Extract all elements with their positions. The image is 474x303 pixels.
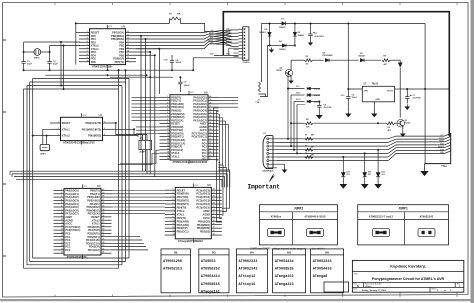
diode D3 1N4001 <box>293 24 304 46</box>
resistor R8 10K <box>290 119 313 128</box>
svg-text:12: 12 <box>61 225 63 227</box>
svg-text:PC3(ADC3): PC3(ADC3) <box>196 199 210 203</box>
svg-text:5V1: 5V1 <box>368 174 371 176</box>
svg-text:8: 8 <box>87 54 88 56</box>
transistor Q3 BC547 <box>277 68 293 77</box>
svg-text:27pF: 27pF <box>27 64 33 66</box>
svg-text:36: 36 <box>209 109 211 111</box>
svg-text:4K7: 4K7 <box>384 63 387 66</box>
svg-text:3: 3 <box>61 196 62 198</box>
svg-text:19: 19 <box>167 155 169 157</box>
svg-text:9: 9 <box>87 57 88 59</box>
svg-text:4K7: 4K7 <box>311 134 314 137</box>
svg-text:PB0(MOSI): PB0(MOSI) <box>88 134 101 138</box>
svg-text:GND: GND <box>108 67 113 69</box>
wire U5 right connections <box>214 97 239 170</box>
svg-text:RESET: RESET <box>438 146 445 148</box>
svg-text:78L05: 78L05 <box>372 84 379 86</box>
svg-text:3: 3 <box>87 38 88 40</box>
resistor R3 1K <box>291 56 323 70</box>
svg-text:33: 33 <box>102 212 104 214</box>
svg-text:R8: R8 <box>306 119 308 121</box>
capacitor C5 100nF <box>164 55 183 70</box>
svg-text:BC547: BC547 <box>405 122 411 125</box>
svg-text:1: 1 <box>87 31 88 33</box>
wire U5 left connections <box>118 97 160 164</box>
svg-text:1: 1 <box>167 96 168 98</box>
svg-text:VCC: VCC <box>83 186 88 188</box>
diode D5 1N4148 <box>358 53 381 62</box>
svg-text:35: 35 <box>102 206 104 208</box>
svg-text:1N4148: 1N4148 <box>358 55 365 58</box>
svg-text:4K7: 4K7 <box>311 146 314 149</box>
svg-text:U1: U1 <box>99 113 103 117</box>
wire crystal to U2 <box>23 42 80 70</box>
svg-text:23: 23 <box>102 245 104 247</box>
wire U2 reset top loop <box>75 19 209 65</box>
svg-text:U1: U1 <box>174 251 178 255</box>
svg-text:8: 8 <box>167 119 168 121</box>
ground DB9 <box>277 164 287 173</box>
svg-text:GND: GND <box>82 143 87 145</box>
svg-text:6: 6 <box>87 47 88 49</box>
svg-text:AGND: AGND <box>203 212 211 216</box>
svg-text:PD7(OC2): PD7(OC2) <box>88 248 100 252</box>
jumper icon JUMP1 right <box>418 228 435 236</box>
svg-text:11: 11 <box>61 222 63 224</box>
diode D10 5V1 <box>341 156 350 177</box>
jumper JP2 <box>278 147 290 156</box>
capacitor C2 <box>47 61 58 65</box>
svg-text:MOSI: MOSI <box>439 138 444 140</box>
svg-text:5: 5 <box>87 44 88 46</box>
svg-text:PC1(ADC1): PC1(ADC1) <box>196 192 210 196</box>
svg-text:29: 29 <box>209 132 211 134</box>
svg-text:R?: R? <box>305 135 307 137</box>
svg-text:AT90S8515: AT90S8515 <box>201 283 220 287</box>
ground C8 <box>316 112 323 119</box>
svg-text:1N4148: 1N4148 <box>314 88 321 91</box>
svg-text:18: 18 <box>213 223 215 225</box>
wire C5 branch <box>192 69 194 71</box>
svg-text:7: 7 <box>61 209 62 211</box>
svg-text:1N4001: 1N4001 <box>259 31 266 34</box>
svg-text:PROGRAM: PROGRAM <box>323 54 333 57</box>
ground Q3 <box>289 76 294 84</box>
svg-text:25: 25 <box>213 199 215 201</box>
diode D8 1N4148 <box>307 100 320 104</box>
svg-text:Sheet: Sheet <box>432 288 437 291</box>
jumper icon JUMP2 right <box>307 228 324 236</box>
svg-text:AREF: AREF <box>203 209 210 213</box>
wire loops under U3 <box>24 258 129 268</box>
svg-text:XTAL1: XTAL1 <box>177 212 185 216</box>
svg-text:11: 11 <box>172 223 174 225</box>
ground Q2 <box>400 126 406 137</box>
svg-text:10: 10 <box>87 60 89 62</box>
svg-text:1N4001: 1N4001 <box>298 34 305 37</box>
svg-text:JUMP3: JUMP3 <box>139 152 147 154</box>
svg-text:8: 8 <box>172 213 173 215</box>
svg-text:27pF: 27pF <box>53 64 59 66</box>
svg-text:AT90S2313: AT90S2313 <box>163 268 182 272</box>
svg-text:3: 3 <box>172 196 173 198</box>
svg-text:5V1: 5V1 <box>347 174 350 176</box>
svg-text:5V1: 5V1 <box>382 174 385 176</box>
svg-text:Document Number: Document Number <box>365 282 382 285</box>
svg-text:PD4(T0): PD4(T0) <box>177 206 187 210</box>
svg-text:47uF/16V: 47uF/16V <box>324 106 333 109</box>
svg-text:25: 25 <box>209 145 211 147</box>
svg-text:6: 6 <box>167 112 168 114</box>
wire resonator to U1 <box>32 129 50 144</box>
transistor Q2 BC547 <box>397 119 410 127</box>
svg-text:15: 15 <box>127 47 129 49</box>
resistor R5 4K7 <box>382 56 400 66</box>
svg-text:16: 16 <box>167 145 169 147</box>
IC U2 AT90S1200/2313 <box>79 25 136 69</box>
svg-text:MISO: MISO <box>439 141 444 143</box>
svg-text:ATmega163: ATmega163 <box>275 275 294 279</box>
svg-text:20: 20 <box>61 252 63 254</box>
svg-text:PC0: PC0 <box>65 248 71 252</box>
svg-text:VOUT: VOUT <box>387 91 394 93</box>
svg-text:AT89S53: AT89S53 <box>201 260 216 264</box>
svg-text:PD0: PD0 <box>202 158 208 162</box>
svg-text:U4: U4 <box>250 251 254 255</box>
svg-text:GND: GND <box>194 241 199 243</box>
IC U6 ATmega8/AT90S4433 <box>165 183 222 243</box>
svg-text:100nF: 100nF <box>176 62 183 64</box>
svg-text:PC4(ADC4): PC4(ADC4) <box>196 202 210 206</box>
ground D10 <box>339 177 347 189</box>
title block <box>352 260 463 292</box>
svg-text:VCC: VCC <box>82 115 87 117</box>
wire U3 to U6 <box>112 191 165 250</box>
svg-text:36: 36 <box>102 202 104 204</box>
resistor R7 4K7 <box>313 122 397 132</box>
svg-text:12: 12 <box>127 57 129 59</box>
svg-text:GND: GND <box>376 99 381 101</box>
svg-text:RESET: RESET <box>226 42 233 44</box>
svg-text:13: 13 <box>167 135 169 137</box>
svg-text:U5: U5 <box>287 251 291 255</box>
resistor R11 4K7 <box>305 134 314 141</box>
svg-text:30: 30 <box>209 129 211 131</box>
svg-text:PC5(ADC5): PC5(ADC5) <box>196 206 210 210</box>
wire SPI twist bundle <box>136 12 239 57</box>
svg-text:19: 19 <box>213 220 215 222</box>
svg-text:37: 37 <box>209 106 211 108</box>
svg-text:1: 1 <box>61 189 62 191</box>
svg-text:3: 3 <box>167 102 168 104</box>
svg-text:40: 40 <box>209 95 211 98</box>
svg-text:10: 10 <box>172 220 174 222</box>
wire main 12V rail <box>269 23 427 164</box>
svg-text:5: 5 <box>167 109 168 111</box>
svg-text:ATmega323: ATmega323 <box>275 283 294 287</box>
svg-text:20: 20 <box>127 31 129 33</box>
svg-text:R?: R? <box>305 153 307 155</box>
connector P1 DB9 <box>263 133 278 173</box>
svg-text:27: 27 <box>102 232 104 234</box>
wire left loop bus <box>24 79 129 269</box>
svg-text:9: 9 <box>172 216 173 218</box>
svg-text:15: 15 <box>61 235 63 237</box>
svg-text:U6: U6 <box>325 251 329 255</box>
svg-text:2: 2 <box>87 34 88 36</box>
svg-text:10K: 10K <box>177 14 181 16</box>
svg-text:PB2(SS): PB2(SS) <box>200 230 210 234</box>
ground D12 <box>374 177 382 189</box>
wire osc taps to loop bus <box>60 41 65 90</box>
ground U7 <box>371 111 377 117</box>
table JUMP1 <box>358 205 449 245</box>
ground C6 <box>345 111 351 117</box>
wire R5 to Q2 <box>398 60 403 117</box>
svg-text:22: 22 <box>209 155 211 157</box>
svg-text:U2: U2 <box>122 25 126 29</box>
svg-text:13: 13 <box>61 229 63 231</box>
svg-text:MOSI: MOSI <box>226 32 231 34</box>
svg-text:23: 23 <box>213 206 215 208</box>
svg-text:6: 6 <box>172 206 173 208</box>
capacitor C6 100nF <box>341 88 358 111</box>
svg-text:XTAL1: XTAL1 <box>171 154 179 158</box>
svg-text:470uF/25V: 470uF/25V <box>315 35 325 38</box>
svg-text:38: 38 <box>102 196 104 198</box>
svg-text:1N4001: 1N4001 <box>279 26 286 29</box>
svg-text:28: 28 <box>209 135 211 137</box>
svg-text:27: 27 <box>209 138 211 140</box>
svg-text:1: 1 <box>172 189 173 191</box>
svg-text:17: 17 <box>127 41 129 43</box>
svg-text:PB1(MISO/INT0): PB1(MISO/INT0) <box>82 127 102 131</box>
svg-text:PD5(T1): PD5(T1) <box>177 216 187 220</box>
wire right bus fan <box>425 133 451 168</box>
svg-text:PD0(RXD): PD0(RXD) <box>177 192 189 196</box>
label Important <box>248 173 281 191</box>
svg-text:100nF: 100nF <box>352 97 358 99</box>
svg-text:7: 7 <box>167 115 168 117</box>
svg-text:Ponyprogrammer Circuit for ATM: Ponyprogrammer Circuit for ATMEL's AVR <box>372 277 445 281</box>
ground right bus <box>420 164 445 177</box>
table U1 device list <box>161 249 191 293</box>
svg-text:AT90S2333: AT90S2333 <box>313 260 332 264</box>
svg-text:2: 2 <box>167 99 168 101</box>
connector J1 power jack <box>256 78 266 104</box>
svg-text:AT90S2343: AT90S2343 <box>420 215 434 218</box>
svg-text:U3: U3 <box>97 184 101 188</box>
svg-text:16: 16 <box>213 230 215 232</box>
svg-text:JUMP2: JUMP2 <box>294 207 304 211</box>
diode D12 5V1 <box>376 149 385 177</box>
svg-text:AT90S2323: AT90S2323 <box>239 260 258 264</box>
IC U3 AT90S4434/8535 socket <box>54 184 112 259</box>
capacitor C9 100nF <box>178 76 190 92</box>
svg-text:RESET: RESET <box>177 188 186 192</box>
svg-text:32: 32 <box>102 215 104 217</box>
svg-text:PB1(OC1): PB1(OC1) <box>177 230 189 234</box>
svg-text:12: 12 <box>167 132 169 134</box>
svg-text:4K7: 4K7 <box>388 129 391 132</box>
svg-text:39: 39 <box>102 192 104 194</box>
table U3 device list <box>199 249 229 295</box>
svg-text:1: 1 <box>58 122 59 124</box>
diode D11 5V1 <box>363 152 372 176</box>
svg-text:7: 7 <box>172 209 173 211</box>
svg-text:PD1(TXD): PD1(TXD) <box>177 195 189 199</box>
svg-text:15: 15 <box>167 142 169 144</box>
svg-text:VIN: VIN <box>364 91 368 93</box>
svg-text:U3: U3 <box>212 251 216 255</box>
svg-text:29: 29 <box>102 225 104 227</box>
ground C7 <box>404 104 410 110</box>
jumper icon JUMP2 left <box>268 228 285 236</box>
svg-text:33: 33 <box>209 119 211 121</box>
svg-text:JUMP1: JUMP1 <box>398 207 408 211</box>
svg-text:5: 5 <box>61 202 62 204</box>
svg-text:BC547: BC547 <box>277 69 283 72</box>
svg-text:R?: R? <box>305 146 307 148</box>
svg-text:Friday, January 17, 2003: Friday, January 17, 2003 <box>362 289 387 292</box>
svg-text:9: 9 <box>61 215 62 217</box>
svg-text:2: 2 <box>61 192 62 194</box>
svg-text:GND: GND <box>190 162 195 164</box>
svg-text:11: 11 <box>167 129 169 131</box>
svg-text:Date:: Date: <box>354 288 359 291</box>
svg-text:13: 13 <box>172 230 174 232</box>
svg-text:35: 35 <box>209 112 211 114</box>
wire VCC rail right <box>407 88 449 90</box>
svg-text:ATmega8: ATmega8 <box>313 275 328 279</box>
svg-text:28: 28 <box>102 229 104 231</box>
caption under JUMP2 <box>250 247 325 250</box>
svg-text:17: 17 <box>213 227 215 229</box>
svg-text:AMP1: AMP1 <box>40 153 46 156</box>
IC U1 AT90S2343/2323/Tiny <box>50 113 113 145</box>
resonator AMP1 <box>40 144 50 155</box>
svg-text:VCC: VCC <box>194 185 199 187</box>
svg-text:AT90Sxx: AT90Sxx <box>271 215 282 218</box>
svg-text:AVCC: AVCC <box>203 216 210 220</box>
svg-text:ATtiny15: ATtiny15 <box>239 282 256 287</box>
svg-text:AT90S1200: AT90S1200 <box>163 260 182 264</box>
svg-text:ATtiny12: ATtiny12 <box>239 274 256 279</box>
svg-text:XTAL2: XTAL2 <box>62 134 70 138</box>
svg-text:ATmega8/AT90S4433: ATmega8/AT90S4433 <box>178 240 204 243</box>
svg-text:26: 26 <box>209 142 211 144</box>
svg-text:22: 22 <box>102 248 104 250</box>
svg-text:21: 21 <box>213 213 215 215</box>
svg-text:U6: U6 <box>207 183 211 187</box>
svg-text:2: 2 <box>58 128 59 130</box>
svg-text:PB2(SCK/T0): PB2(SCK/T0) <box>85 121 101 125</box>
svg-text:19: 19 <box>61 248 63 250</box>
svg-text:17: 17 <box>167 148 169 150</box>
svg-text:AT90S4434: AT90S4434 <box>275 260 294 264</box>
svg-text:DB9FEMALE: DB9FEMALE <box>263 170 275 173</box>
svg-text:AT90S4414: AT90S4414 <box>201 275 220 279</box>
svg-text:VCC: VCC <box>190 92 195 94</box>
svg-text:20: 20 <box>213 216 215 218</box>
svg-text:PD3(INT1): PD3(INT1) <box>177 202 189 206</box>
svg-text:AT89S8252: AT89S8252 <box>201 268 220 272</box>
svg-text:Κυριάκος Κοντάκης: Κυριάκος Κοντάκης <box>390 264 425 268</box>
svg-text:18: 18 <box>167 152 169 154</box>
jumper JP1 <box>139 135 152 174</box>
svg-text:47uF/16V: 47uF/16V <box>413 97 422 100</box>
diode D6 1N4148 <box>307 87 320 91</box>
wire jack to bridge <box>262 24 270 97</box>
svg-text:27: 27 <box>213 192 215 194</box>
svg-text:1N4001: 1N4001 <box>279 48 286 51</box>
capacitor C3 470uF/25V <box>308 24 324 41</box>
svg-text:21: 21 <box>209 158 211 160</box>
svg-text:5: 5 <box>104 128 105 130</box>
svg-text:4K7: 4K7 <box>311 154 314 157</box>
svg-text:AT90S2343/2323/Tiny12/15: AT90S2343/2323/Tiny12/15 <box>63 142 95 145</box>
svg-text:4MHz: 4MHz <box>34 57 41 60</box>
svg-text:PB5(SCK): PB5(SCK) <box>198 219 210 223</box>
jumper icon JUMP1 left <box>373 228 390 236</box>
IC U7 78L05 <box>362 84 407 112</box>
svg-text:18: 18 <box>127 38 129 40</box>
svg-text:PD6(AIN0): PD6(AIN0) <box>177 219 190 223</box>
diode D4 1N4001 <box>270 40 295 51</box>
svg-text:20: 20 <box>167 158 169 160</box>
svg-text:PB0(ICP): PB0(ICP) <box>177 226 188 230</box>
svg-text:PC2(ADC2): PC2(ADC2) <box>196 195 210 199</box>
svg-text:11: 11 <box>127 60 129 62</box>
svg-text:RESET: RESET <box>62 121 71 125</box>
wire central vertical bus <box>118 69 130 268</box>
table JUMP2 <box>260 205 338 245</box>
svg-text:25: 25 <box>102 239 104 241</box>
diode D2 1N4001 <box>259 24 271 46</box>
wire power-section bus outline <box>223 12 449 137</box>
svg-text:MISO: MISO <box>226 35 231 37</box>
svg-text:16: 16 <box>61 239 63 241</box>
svg-text:19: 19 <box>127 34 129 36</box>
ground C3 <box>308 41 313 46</box>
svg-text:XTAL1: XTAL1 <box>62 127 70 131</box>
capacitor C7 47uF/16V <box>405 88 421 104</box>
svg-text:22: 22 <box>213 209 215 211</box>
wire U6 right wrap bus <box>216 160 229 222</box>
IC U5 ATmega163/AT90S4434/8535 <box>160 91 219 165</box>
svg-text:1N4148: 1N4148 <box>314 94 321 97</box>
svg-text:26: 26 <box>213 196 215 198</box>
svg-text:PB3(MOSI): PB3(MOSI) <box>197 226 210 230</box>
svg-text:15: 15 <box>213 234 215 236</box>
svg-text:26: 26 <box>102 235 104 237</box>
svg-text:37: 37 <box>102 199 104 201</box>
svg-text:AT90S4414/8515: AT90S4414/8515 <box>304 215 326 218</box>
svg-text:PD7(AIN1): PD7(AIN1) <box>177 223 190 227</box>
svg-text:16: 16 <box>127 44 129 46</box>
diode D1 1N4001 <box>270 19 311 30</box>
svg-text:31: 31 <box>102 219 104 221</box>
svg-text:40: 40 <box>102 188 104 191</box>
svg-text:100nF: 100nF <box>184 85 191 87</box>
table U5 device list <box>273 249 306 293</box>
svg-text:AT90S2343: AT90S2343 <box>239 268 258 272</box>
svg-text:U5: U5 <box>204 91 208 95</box>
wire zener stack feeds <box>286 73 306 153</box>
svg-text:AT90S4433: AT90S4433 <box>313 268 332 272</box>
svg-text:38: 38 <box>209 102 211 104</box>
